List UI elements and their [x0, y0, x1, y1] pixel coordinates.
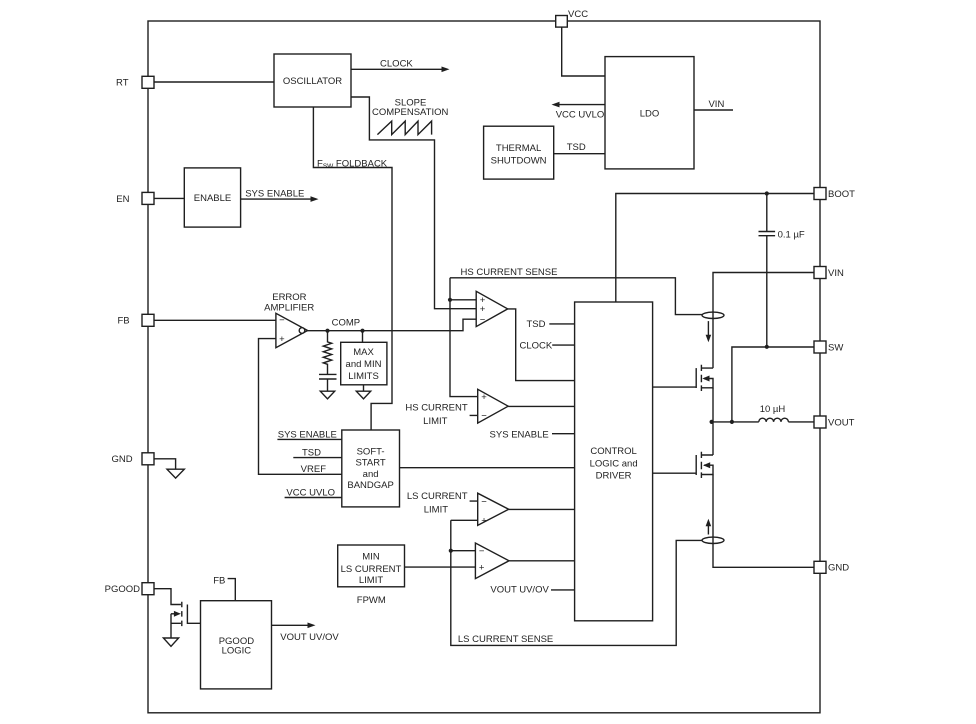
svg-text:and MIN: and MIN [346, 359, 382, 370]
svg-text:PGOOD: PGOOD [105, 584, 141, 595]
svg-text:ENABLE: ENABLE [194, 193, 232, 204]
svg-text:START: START [355, 457, 385, 468]
svg-text:LOGIC and: LOGIC and [590, 458, 638, 469]
svg-text:MIN: MIN [362, 552, 380, 563]
svg-text:MAX: MAX [353, 347, 374, 358]
svg-text:+: + [279, 334, 285, 345]
svg-text:THERMAL: THERMAL [496, 143, 541, 154]
svg-text:+: + [480, 304, 486, 315]
svg-text:FPWM: FPWM [357, 595, 386, 606]
svg-text:CLOCK: CLOCK [519, 341, 552, 352]
svg-text:LIMIT: LIMIT [424, 504, 448, 515]
svg-text:−: − [279, 315, 285, 326]
svg-text:LIMITS: LIMITS [348, 371, 379, 382]
svg-text:LS CURRENT: LS CURRENT [341, 564, 402, 575]
svg-text:VREF: VREF [301, 464, 327, 475]
svg-text:−: − [481, 496, 487, 507]
svg-text:VOUT: VOUT [828, 417, 855, 428]
svg-text:GND: GND [828, 563, 849, 574]
svg-text:LDO: LDO [640, 109, 660, 120]
svg-text:VCC UVLO: VCC UVLO [556, 109, 605, 120]
svg-text:TSD: TSD [527, 319, 546, 330]
svg-text:AMPLIFIER: AMPLIFIER [264, 302, 314, 313]
svg-text:TSD: TSD [567, 142, 586, 153]
svg-text:VOUT UV/OV: VOUT UV/OV [490, 584, 549, 595]
svg-text:+: + [479, 562, 485, 573]
svg-text:BANDGAP: BANDGAP [347, 480, 393, 491]
svg-text:HS CURRENT: HS CURRENT [405, 403, 467, 414]
svg-text:ERROR: ERROR [272, 292, 306, 303]
svg-text:and: and [363, 469, 379, 480]
svg-text:LIMIT: LIMIT [423, 416, 447, 427]
svg-text:LS CURRENT: LS CURRENT [407, 491, 468, 502]
svg-text:LOGIC: LOGIC [222, 645, 252, 656]
svg-text:OSCILLATOR: OSCILLATOR [283, 76, 342, 87]
svg-text:CONTROL: CONTROL [590, 446, 636, 457]
svg-text:FB: FB [213, 576, 225, 587]
svg-text:HS CURRENT SENSE: HS CURRENT SENSE [461, 267, 558, 278]
svg-text:LS CURRENT SENSE: LS CURRENT SENSE [458, 634, 553, 645]
svg-text:−: − [481, 411, 487, 422]
svg-text:VIN: VIN [828, 268, 844, 279]
svg-text:+: + [481, 516, 487, 527]
svg-text:VCC UVLO: VCC UVLO [286, 487, 335, 498]
svg-text:−: − [479, 546, 485, 557]
svg-text:TSD: TSD [302, 448, 321, 459]
svg-text:VCC: VCC [568, 9, 588, 20]
svg-text:0.1 µF: 0.1 µF [778, 230, 805, 241]
svg-text:COMP: COMP [332, 317, 361, 328]
svg-text:10 µH: 10 µH [760, 404, 786, 415]
svg-text:SOFT-: SOFT- [357, 446, 385, 457]
svg-text:LIMIT: LIMIT [359, 575, 383, 586]
svg-text:SYS ENABLE: SYS ENABLE [245, 188, 304, 199]
svg-text:−: − [480, 314, 486, 325]
svg-text:SYS ENABLE: SYS ENABLE [278, 429, 337, 440]
svg-text:SYS ENABLE: SYS ENABLE [490, 430, 549, 441]
svg-text:RT: RT [116, 77, 129, 88]
svg-text:EN: EN [116, 194, 129, 205]
svg-text:GND: GND [111, 454, 132, 465]
svg-text:CLOCK: CLOCK [380, 59, 413, 70]
svg-text:VOUT UV/OV: VOUT UV/OV [280, 632, 339, 643]
svg-text:VIN: VIN [708, 99, 724, 110]
svg-text:SHUTDOWN: SHUTDOWN [491, 156, 547, 167]
svg-text:BOOT: BOOT [828, 189, 855, 200]
svg-text:DRIVER: DRIVER [596, 471, 632, 482]
svg-text:SW: SW [828, 342, 843, 353]
svg-text:+: + [481, 392, 487, 403]
svg-text:COMPENSATION: COMPENSATION [372, 107, 448, 118]
svg-text:FB: FB [117, 316, 129, 327]
